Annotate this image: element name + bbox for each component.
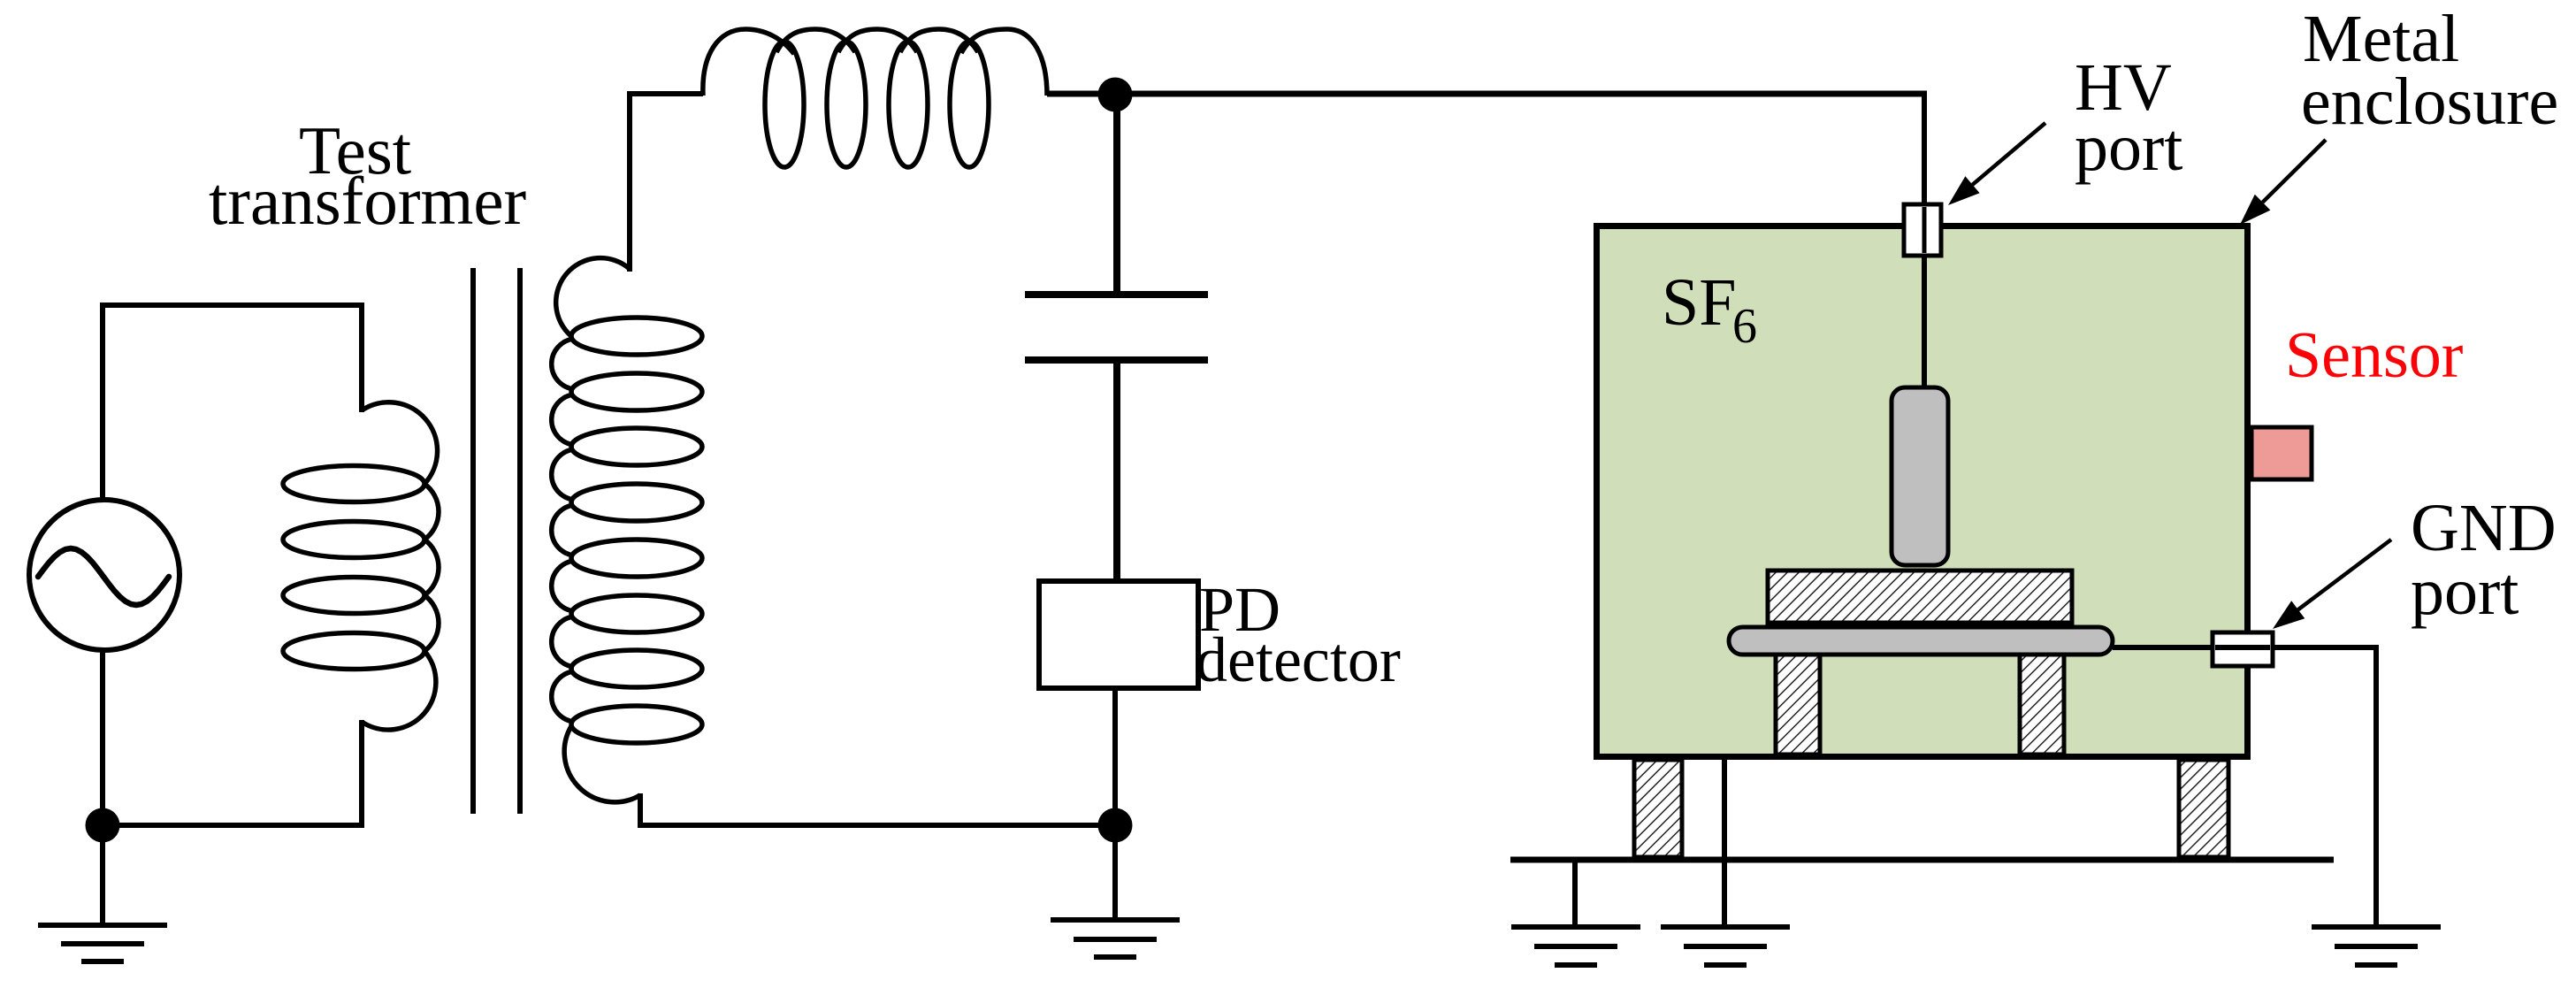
svg-text:port: port — [2411, 555, 2519, 629]
label HV port — [2075, 50, 2182, 185]
enclosure foot left (hatched) — [1634, 760, 1682, 857]
label Sensor (red) — [2285, 319, 2463, 392]
wire capacitor top lead — [1113, 96, 1120, 292]
svg-text:transformer: transformer — [209, 163, 526, 239]
svg-text:detector: detector — [1196, 624, 1401, 695]
capacitor Ck — [1025, 295, 1208, 360]
GND port — [2213, 632, 2273, 666]
HV port (bushing) — [1904, 204, 1941, 256]
wire left vertical lower (AC source to ground node) — [100, 650, 105, 925]
label Metal enclosure — [2301, 2, 2558, 139]
label SF6 — [1662, 265, 1757, 354]
HV wire inside port — [1922, 207, 1927, 253]
arrow HV port — [1948, 123, 2045, 205]
transformer primary winding lead top — [359, 303, 364, 412]
wire bar to GND port — [2113, 645, 2376, 650]
wire bottom horizontal (secondary bottom to node) — [640, 823, 1115, 828]
node junction dot left — [86, 808, 120, 843]
arrow GND port — [2273, 540, 2391, 629]
wire top-left horizontal (source to primary) — [100, 303, 364, 308]
electrode rod (gray) — [1892, 387, 1948, 565]
ground (below PD detector) — [1051, 920, 1180, 957]
node junction dot bottom — [1098, 808, 1133, 843]
support leg right (hatched) — [2020, 655, 2064, 754]
enclosure foot right (hatched) — [2179, 760, 2228, 857]
ground stub A — [1572, 860, 1578, 927]
ground B (second under bus) — [1661, 927, 1790, 965]
svg-text:6: 6 — [1732, 299, 1757, 354]
AC source V1 — [29, 500, 180, 650]
ground (right, below GND wire) — [2312, 927, 2441, 965]
transformer secondary winding — [552, 258, 702, 802]
transformer secondary winding lead top — [627, 91, 632, 272]
label Test transformer — [209, 112, 526, 239]
arrow Metal enclosure — [2240, 140, 2326, 225]
svg-text:enclosure: enclosure — [2301, 65, 2558, 139]
wire HV lead vertical — [1922, 91, 1927, 389]
node junction dot top — [1098, 78, 1133, 112]
transformer secondary winding lead bottom — [638, 793, 643, 828]
metal enclosure (green) — [1597, 226, 2248, 757]
electrode plate bar (gray stadium) — [1729, 627, 2113, 655]
inductor L1 — [703, 29, 1047, 167]
svg-text:Sensor: Sensor — [2285, 319, 2463, 392]
wire GND port down to ground — [2373, 645, 2379, 927]
ground A (left under bus) — [1511, 927, 1640, 965]
PD detector box — [1039, 581, 1198, 688]
enclosure foot wire left — [1722, 760, 1727, 927]
label PD detector — [1196, 574, 1401, 695]
GND port wire inside — [2215, 645, 2270, 650]
svg-text:port: port — [2075, 111, 2182, 185]
transformer core — [473, 268, 520, 814]
sensor box (pink) — [2251, 427, 2312, 479]
wire capacitor to PD detector — [1113, 360, 1120, 581]
electrode block (hatched) — [1768, 571, 2072, 623]
transformer primary winding lead bottom — [359, 720, 364, 828]
wire secondary top horizontal — [627, 91, 703, 96]
label GND port — [2411, 491, 2557, 629]
wire inductor to junction and across top — [1047, 91, 1927, 97]
wire left vertical upper (to AC source) — [100, 303, 105, 504]
support leg left (hatched) — [1776, 655, 1820, 754]
svg-text:SF: SF — [1662, 265, 1737, 340]
transformer primary winding — [283, 402, 439, 730]
wire bottom-left horizontal (node to primary bottom) — [103, 823, 364, 828]
ground (below AC source) — [38, 925, 167, 961]
wire PD detector to ground node — [1112, 688, 1118, 920]
ground bus bar — [1510, 857, 2334, 863]
